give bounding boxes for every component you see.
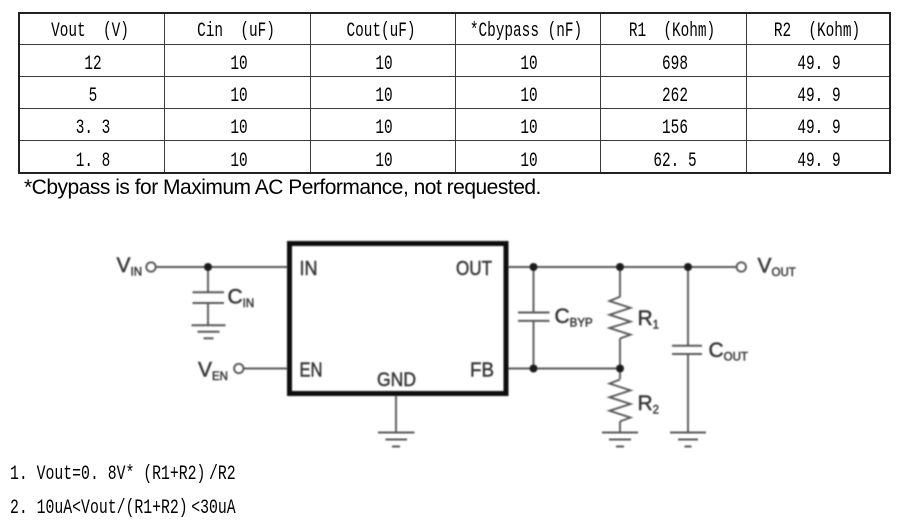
svg-text:COUT: COUT bbox=[709, 339, 748, 364]
svg-text:CIN: CIN bbox=[228, 286, 255, 311]
svg-text:IN: IN bbox=[300, 258, 318, 280]
svg-text:FB: FB bbox=[470, 360, 494, 382]
svg-text:EN: EN bbox=[300, 360, 323, 382]
svg-text:VEN: VEN bbox=[198, 359, 228, 384]
svg-text:OUT: OUT bbox=[456, 258, 492, 280]
svg-text:R2: R2 bbox=[638, 392, 660, 417]
svg-text:GND: GND bbox=[377, 370, 416, 391]
svg-text:R1: R1 bbox=[638, 307, 660, 332]
svg-text:VOUT: VOUT bbox=[758, 255, 796, 280]
svg-text:VIN: VIN bbox=[117, 254, 143, 279]
svg-text:CBYP: CBYP bbox=[555, 305, 594, 330]
